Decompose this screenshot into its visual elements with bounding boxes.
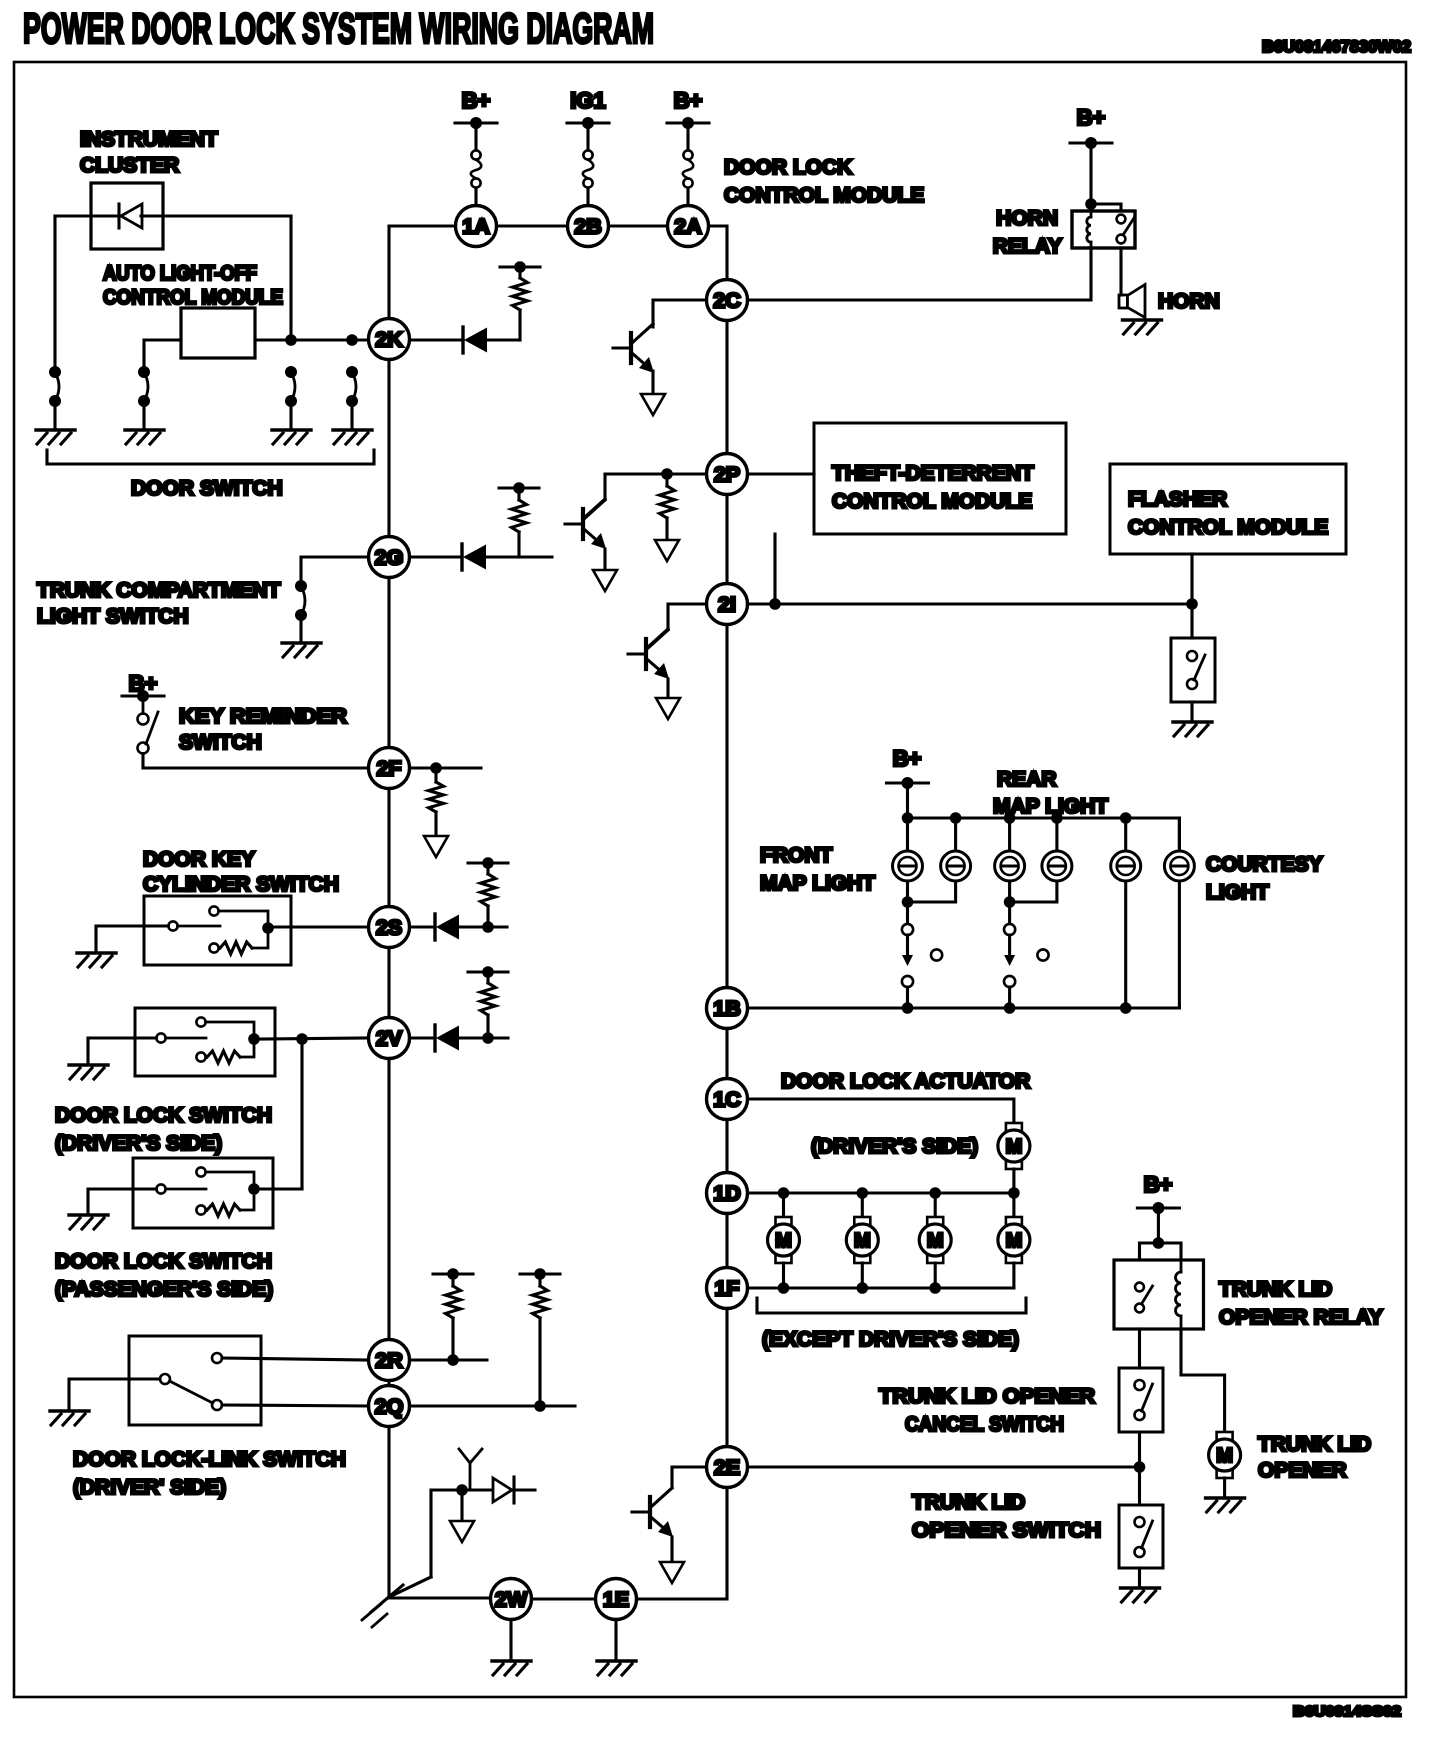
connector pin 2A — [668, 206, 709, 247]
ground door switch 1 — [36, 430, 75, 444]
power B+ map light — [887, 746, 929, 789]
svg-text:1B: 1B — [713, 997, 740, 1021]
left bus wire 2K-2G — [387, 360, 390, 537]
lamp 2 — [941, 851, 971, 881]
wire lamp 1 stub — [906, 818, 909, 851]
svg-text:CANCEL SWITCH: CANCEL SWITCH — [905, 1413, 1064, 1436]
doc code bottom right — [1293, 1703, 1401, 1720]
left bus wire 2R-2Q — [387, 1380, 390, 1387]
junction dot 1F bus — [929, 1282, 941, 1294]
right bus wire 1B-1C — [725, 1029, 728, 1079]
wire cylinder switch to ground — [96, 926, 168, 953]
motor door lock actuator 2 — [846, 1217, 878, 1263]
junction dot — [456, 1484, 468, 1496]
wire switch 4 to ground — [350, 401, 353, 430]
power IG1 feed — [567, 88, 609, 129]
connector pin 2Q — [369, 1386, 410, 1427]
junction dot lamp bus — [1120, 812, 1132, 824]
junction dot — [447, 1354, 459, 1366]
wire Q4 collector to 2E — [672, 1467, 707, 1488]
svg-text:HORN: HORN — [1158, 290, 1220, 313]
lamp bottom bus — [748, 1006, 1180, 1009]
wire 2P to theft module — [748, 472, 815, 475]
wire node to arrow — [460, 1490, 463, 1521]
connector pin 2K — [369, 319, 410, 360]
horn speaker — [1119, 285, 1145, 318]
wire 2C to horn relay — [748, 248, 1092, 300]
wire 2E to trunk switches — [748, 1465, 1140, 1468]
svg-text:1A: 1A — [462, 215, 489, 239]
svg-text:2C: 2C — [713, 289, 740, 313]
cylinder switch contacts — [168, 906, 273, 954]
svg-text:MAP LIGHT: MAP LIGHT — [760, 872, 875, 895]
svg-text:TRUNK LID OPENER: TRUNK LID OPENER — [879, 1385, 1095, 1408]
wire 1A to left bus — [389, 226, 455, 318]
ground driver lock switch — [69, 1065, 108, 1079]
lamp 3 — [995, 851, 1025, 881]
connector pin 1A — [456, 206, 497, 247]
svg-text:FRONT: FRONT — [760, 844, 832, 867]
wire fuse to pin — [586, 188, 589, 206]
door switch 1 — [49, 366, 61, 407]
svg-text:DOOR SWITCH: DOOR SWITCH — [131, 477, 283, 500]
svg-text:B+: B+ — [1077, 105, 1106, 130]
svg-text:B+: B+ — [1144, 1172, 1173, 1197]
svg-text:MAP LIGHT: MAP LIGHT — [993, 795, 1108, 818]
chassis ground corner — [362, 1585, 403, 1627]
door switch bracket — [47, 450, 374, 464]
1D bus — [748, 1191, 1014, 1194]
trunk relay switch — [1135, 1283, 1152, 1313]
junction dot 1D bus — [929, 1187, 941, 1199]
junction dot lamp bus — [1004, 812, 1016, 824]
wire diode to junction — [459, 1036, 508, 1039]
connector pin 2P — [707, 454, 748, 495]
label TRUNK LID OPENER SWITCH — [912, 1491, 1101, 1542]
svg-text:1C: 1C — [713, 1088, 740, 1112]
label DOOR LOCK SWITCH PASSENGER — [55, 1250, 273, 1301]
wire actuator 3 bottom — [934, 1263, 937, 1288]
right bus wire 2I-1B — [725, 625, 728, 988]
junction dot — [769, 598, 781, 610]
svg-text:SWITCH: SWITCH — [179, 731, 262, 754]
svg-text:2R: 2R — [375, 1349, 403, 1373]
ground door switch 2 — [125, 430, 164, 444]
svg-text:CONTROL MODULE: CONTROL MODULE — [832, 490, 1032, 513]
wire flasher switch to ground — [1190, 702, 1193, 722]
ground cylinder switch — [77, 953, 116, 967]
svg-text:2Q: 2Q — [375, 1395, 404, 1419]
resistor pull-up at 2V — [468, 966, 508, 1038]
wire switch 1 to ground — [53, 401, 56, 430]
svg-text:AUTO LIGHT-OFF: AUTO LIGHT-OFF — [103, 262, 257, 285]
wire opener switch to ground — [1138, 1568, 1141, 1588]
svg-text:(DRIVER'S SIDE): (DRIVER'S SIDE) — [55, 1132, 222, 1155]
wire relay to horn — [1119, 248, 1122, 295]
wire lamp4 to lamp3 — [1010, 881, 1057, 902]
connector pin 2B — [568, 206, 609, 247]
horn relay coil — [1087, 211, 1091, 248]
continuation arrow node — [450, 1521, 474, 1542]
svg-text:OPENER RELAY: OPENER RELAY — [1219, 1306, 1383, 1329]
wire Q1 collector to 2C — [653, 300, 707, 327]
wire actuator 1 top — [782, 1193, 785, 1217]
junction dot — [1134, 1461, 1146, 1473]
label DOOR LOCK SWITCH DRIVER — [55, 1104, 272, 1155]
svg-text:1E: 1E — [603, 1588, 629, 1612]
door switch 3 — [285, 366, 297, 407]
motor door lock actuator 1 — [768, 1217, 800, 1263]
svg-text:CLUSTER: CLUSTER — [80, 154, 179, 177]
wire 2I to flasher switch — [748, 602, 1193, 605]
connector pin 2E — [707, 1447, 748, 1488]
label COURTESY LIGHT — [1206, 853, 1323, 904]
fuse under IG1 — [583, 150, 594, 187]
wire B+ to fuse — [686, 123, 689, 150]
power B+ horn — [1070, 105, 1112, 149]
svg-text:B+: B+ — [462, 88, 491, 113]
svg-text:2I: 2I — [718, 593, 736, 617]
svg-text:2F: 2F — [376, 757, 401, 781]
junction dot — [1186, 598, 1198, 610]
trunk lid opener switch box — [1119, 1505, 1163, 1568]
svg-text:OPENER SWITCH: OPENER SWITCH — [912, 1519, 1101, 1542]
continuation arrow Q1 emitter — [641, 394, 665, 415]
resistor above 2Q — [520, 1268, 560, 1406]
wire 2G to trunk light switch — [301, 557, 369, 586]
right bus wire 1D-1F — [725, 1214, 728, 1268]
wire Q2 emitter — [603, 549, 606, 570]
svg-text:2S: 2S — [376, 916, 402, 940]
wire link switch to 2R — [222, 1358, 369, 1360]
svg-text:TRUNK LID: TRUNK LID — [912, 1491, 1025, 1514]
flasher switch — [1187, 651, 1205, 689]
svg-text:THEFT-DETERRENT: THEFT-DETERRENT — [832, 462, 1034, 485]
continuation arrow 2F resistor — [424, 836, 448, 857]
label DOOR LOCK-LINK SWITCH — [73, 1448, 346, 1499]
svg-text:2K: 2K — [375, 328, 403, 352]
wire lamp 3 stub — [1008, 818, 1011, 851]
ground 2W — [492, 1661, 531, 1675]
svg-text:CONTROL MODULE: CONTROL MODULE — [724, 184, 924, 207]
left bus wire 2G-2F — [387, 578, 390, 748]
svg-text:HORN: HORN — [996, 207, 1058, 230]
door lock switch (passenger) box — [133, 1158, 273, 1228]
wire passenger switch link — [300, 1039, 303, 1189]
wire to relay switch — [1091, 204, 1121, 211]
transistor Q4 — [632, 1488, 673, 1537]
label AUTO LIGHT-OFF CONTROL MODULE — [103, 262, 283, 309]
lamp 6 — [1164, 851, 1194, 881]
connector pin 2V — [369, 1018, 410, 1059]
label DRIVERS SIDE — [811, 1135, 978, 1158]
wire 2A to right bus — [709, 226, 727, 279]
power B+ key reminder — [122, 671, 164, 702]
ground door switch 3 — [272, 430, 311, 444]
wire into cluster diode — [55, 214, 119, 217]
junction dot lamp bus — [950, 812, 962, 824]
wire 2W to 1E — [532, 1597, 596, 1600]
flasher switch box — [1171, 638, 1215, 702]
svg-text:DOOR LOCK: DOOR LOCK — [724, 156, 852, 179]
junction dot — [482, 1032, 494, 1044]
junction dot 1D bus — [1008, 1187, 1020, 1199]
label FRONT MAP LIGHT — [760, 844, 875, 895]
continuation arrow 2P resistor — [655, 540, 679, 561]
lamp top bus — [908, 818, 1180, 851]
junction dot lamp bus — [902, 812, 914, 824]
junction dot 1D bus — [857, 1187, 869, 1199]
label REAR MAP LIGHT — [993, 768, 1108, 818]
wire up to diode node — [431, 1490, 493, 1577]
wire 2W ground leg — [509, 1620, 512, 1662]
wire passenger lock switch to ground — [88, 1189, 156, 1215]
junction dot — [1153, 1237, 1165, 1249]
label DOOR SWITCH — [131, 477, 283, 500]
wire passenger lock switch to link — [259, 1187, 302, 1190]
ground trunk motor — [1206, 1498, 1245, 1512]
wire Q1 emitter — [651, 371, 654, 394]
junction dot — [534, 1400, 546, 1412]
label DOOR KEY CYLINDER SWITCH — [143, 848, 339, 896]
label HORN RELAY — [993, 207, 1062, 258]
continuation arrow Q4 emitter — [660, 1562, 684, 1583]
wire Q3 emitter — [666, 679, 669, 698]
svg-text:TRUNK COMPARTMENT: TRUNK COMPARTMENT — [37, 579, 281, 602]
wire lamp 6 stub — [1178, 818, 1181, 851]
resistor at 2P — [660, 474, 675, 540]
label KEY REMINDER SWITCH — [179, 705, 347, 754]
connector pin 1B — [707, 988, 748, 1029]
junction dot — [1004, 896, 1016, 908]
wire lamp 5 stub — [1124, 818, 1127, 851]
wire key reminder to 2F — [143, 754, 369, 769]
wire B+ to relay — [1089, 143, 1092, 211]
svg-text:M: M — [1216, 1445, 1233, 1467]
wire relay to trunk motor — [1181, 1329, 1225, 1432]
svg-text:(DRIVER' SIDE): (DRIVER' SIDE) — [73, 1476, 226, 1499]
svg-text:DOOR LOCK SWITCH: DOOR LOCK SWITCH — [55, 1104, 272, 1127]
junction dot — [285, 334, 297, 346]
power B+ feed — [667, 88, 709, 129]
junction dot 1F bus — [857, 1282, 869, 1294]
wire lamp5 down — [1124, 881, 1127, 1008]
wire lamp6 down — [1178, 881, 1181, 1008]
label TRUNK LID OPENER — [1258, 1433, 1371, 1482]
trunk opener switch — [1135, 1517, 1153, 1557]
flasher control module box — [1110, 464, 1346, 554]
diode at 2K — [463, 327, 487, 353]
wire module left leg — [144, 340, 181, 372]
door lock switch (driver) box — [135, 1008, 275, 1076]
trunk lid opener cancel switch box — [1119, 1368, 1163, 1432]
label TRUNK COMPARTMENT LIGHT SWITCH — [37, 579, 281, 628]
connector pair front map — [902, 924, 913, 1008]
left bus wire 2F-2S — [387, 789, 390, 907]
svg-text:(DRIVER'S SIDE): (DRIVER'S SIDE) — [811, 1135, 978, 1158]
trunk compartment light switch — [295, 580, 307, 621]
junction dot — [1085, 198, 1097, 210]
wire fuse to pin — [474, 188, 477, 206]
wire 2B to 2A — [609, 224, 667, 227]
wire switch 3 to ground — [289, 401, 292, 430]
ground 1E — [597, 1661, 636, 1675]
svg-text:(EXCEPT DRIVER'S SIDE): (EXCEPT DRIVER'S SIDE) — [762, 1328, 1019, 1351]
wire 2V to diode — [410, 1036, 436, 1039]
trunk relay coil — [1176, 1260, 1182, 1329]
motor door lock actuator 3 — [919, 1217, 951, 1263]
trunk cancel switch — [1135, 1380, 1153, 1420]
connector pin 2F — [369, 748, 410, 789]
svg-text:FLASHER: FLASHER — [1128, 488, 1227, 511]
svg-text:M: M — [1006, 1230, 1023, 1252]
lamp 4 — [1042, 851, 1072, 881]
svg-text:DOOR LOCK ACTUATOR: DOOR LOCK ACTUATOR — [781, 1070, 1030, 1093]
wire actuator 4 top — [1012, 1193, 1015, 1217]
ground link switch — [50, 1411, 89, 1425]
svg-text:LIGHT SWITCH: LIGHT SWITCH — [37, 605, 189, 628]
right bus wire 2P-2I — [725, 495, 728, 584]
svg-text:RELAY: RELAY — [993, 235, 1062, 258]
wire diode to resistor — [487, 338, 520, 341]
junction dot lamp bottom bus — [1004, 1002, 1016, 1014]
wire 1E to 2E — [637, 1488, 728, 1599]
svg-text:M: M — [1006, 1136, 1023, 1158]
door switch 4 — [346, 366, 358, 407]
wire 1C to driver actuator — [748, 1099, 1014, 1123]
driver lock switch contacts — [156, 1017, 259, 1063]
trunk lid opener relay box — [1114, 1260, 1204, 1329]
resistor at 2F — [429, 768, 444, 836]
power B+ feed — [455, 88, 497, 129]
svg-text:2E: 2E — [714, 1456, 740, 1480]
diode in instrument cluster — [119, 204, 142, 228]
right bus wire 2C-2P — [725, 321, 728, 454]
wire switch 2 to ground — [142, 401, 145, 430]
label DOOR LOCK CONTROL MODULE — [724, 156, 924, 207]
wire actuator 4 bottom — [1012, 1263, 1015, 1288]
svg-text:M: M — [854, 1230, 871, 1252]
wire driver actuator to 1D bus — [1012, 1169, 1015, 1193]
wire IG1 to fuse — [586, 123, 589, 150]
resistor pull-up at 2G — [499, 482, 539, 557]
svg-text:M: M — [927, 1230, 944, 1252]
wire B+ trunk down — [1157, 1208, 1160, 1243]
motor trunk lid opener — [1209, 1432, 1241, 1478]
svg-text:CYLINDER SWITCH: CYLINDER SWITCH — [143, 873, 339, 896]
connector pin 2G — [369, 537, 410, 578]
wire 2K to diode — [410, 338, 464, 341]
connector pin 1D — [707, 1173, 748, 1214]
wire cylinder switch to 2S — [273, 925, 369, 928]
loose connector circle — [1037, 949, 1048, 960]
svg-text:2W: 2W — [495, 1588, 528, 1612]
wire 2I left — [668, 604, 707, 629]
svg-text:TRUNK LID: TRUNK LID — [1258, 1433, 1371, 1456]
wire driver lock switch to 2V — [259, 1038, 369, 1039]
motor door lock actuator 4 — [998, 1217, 1030, 1263]
junction dot lamp bus — [1051, 812, 1063, 824]
wire 2F right — [410, 766, 482, 769]
wire lamp 2 stub — [954, 818, 957, 851]
svg-text:INSTRUMENT: INSTRUMENT — [80, 128, 218, 151]
continuation arrow Q3 emitter — [656, 698, 680, 719]
wire 2Q right — [410, 1404, 576, 1407]
svg-text:B+: B+ — [674, 88, 703, 113]
label THEFT-DETERRENT CONTROL MODULE — [832, 462, 1034, 513]
doc code top right — [1262, 37, 1411, 56]
label INSTRUMENT CLUSTER — [80, 128, 218, 177]
right bus wire 1F-2E — [725, 1309, 728, 1447]
wire lamp1 down — [906, 881, 909, 924]
label HORN — [1158, 290, 1220, 313]
svg-text:2P: 2P — [714, 463, 740, 487]
svg-text:POWER DOOR LOCK SYSTEM WIRING: POWER DOOR LOCK SYSTEM WIRING DIAGRAM — [23, 5, 654, 53]
auto light-off module box — [181, 308, 255, 358]
svg-text:B6U091467830W02: B6U091467830W02 — [1262, 37, 1411, 56]
svg-text:CONTROL MODULE: CONTROL MODULE — [1128, 516, 1328, 539]
continuation arrow Q2 emitter — [593, 570, 617, 591]
title — [23, 5, 654, 53]
svg-text:B+: B+ — [893, 746, 922, 771]
bottom wire to 2W — [389, 1596, 490, 1599]
label TRUNK LID OPENER CANCEL SWITCH — [879, 1385, 1095, 1436]
wire cluster left leg — [53, 216, 56, 372]
label TRUNK LID OPENER RELAY — [1219, 1278, 1383, 1329]
svg-text:(PASSENGER'S SIDE): (PASSENGER'S SIDE) — [55, 1278, 273, 1301]
left bus wire 2V-2R — [387, 1059, 390, 1340]
label DOOR LOCK ACTUATOR — [781, 1070, 1030, 1093]
svg-text:REAR: REAR — [997, 768, 1057, 791]
junction dot 1D bus — [778, 1187, 790, 1199]
left bus wire 2Q-ground — [387, 1427, 390, 1598]
wire B+ to lamp bus — [906, 783, 909, 818]
transistor Q3 — [628, 629, 669, 679]
resistor pull-up at 2K — [500, 261, 540, 340]
horn relay switch — [1117, 215, 1134, 244]
wire trunk light switch to ground — [299, 615, 302, 643]
svg-text:B6U0914SS02: B6U0914SS02 — [1293, 1703, 1401, 1720]
label EXCEPT DRIVERS SIDE — [762, 1328, 1019, 1351]
1F bus — [748, 1286, 1014, 1289]
ground door switch 4 — [333, 430, 372, 444]
wire link switch to ground — [69, 1379, 160, 1411]
wire flasher to junction — [1190, 554, 1193, 604]
junction dot 1F bus — [778, 1282, 790, 1294]
wire lamp3 down — [1008, 881, 1011, 924]
connector pair rear map — [1004, 924, 1015, 1008]
antenna symbol — [459, 1449, 482, 1490]
ground horn — [1123, 320, 1162, 334]
wire actuator 1 bottom — [782, 1263, 785, 1288]
svg-text:1F: 1F — [714, 1277, 739, 1301]
instrument cluster box — [91, 183, 163, 249]
door key cylinder switch box — [144, 896, 291, 965]
wire module to 2K — [255, 338, 369, 341]
door lock-link switch box — [129, 1336, 261, 1425]
svg-text:2V: 2V — [376, 1027, 403, 1051]
svg-text:M: M — [775, 1230, 792, 1252]
fuse under B+ — [471, 150, 482, 187]
svg-text:COURTESY: COURTESY — [1206, 853, 1323, 876]
actuator bracket — [757, 1298, 1026, 1313]
wire theft module to 2I wire — [773, 534, 776, 604]
wire 1E ground leg — [614, 1620, 617, 1662]
wire lamp 4 stub — [1055, 818, 1058, 851]
junction dot — [430, 762, 442, 774]
key reminder switch — [138, 696, 159, 754]
fuse under B+ — [683, 150, 694, 187]
